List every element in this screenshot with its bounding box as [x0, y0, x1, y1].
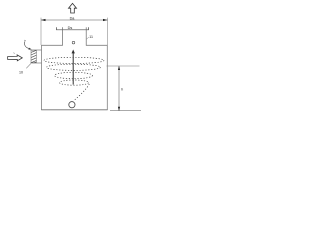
vessel left wall: [41, 45, 43, 110]
vortex ellipse 2 (dashed): [47, 64, 101, 70]
vessel right wall: [106, 45, 108, 110]
inlet tube bottom wall: [31, 62, 42, 64]
center up arrow shaft: [72, 53, 74, 85]
vortex ellipse 1 (dashed): [44, 57, 104, 63]
tick label above curved arrow: [24, 40, 25, 41]
dimension Da: extension line left: [40, 18, 42, 45]
neck right wall: [85, 27, 87, 45]
svg-text:h: h: [121, 87, 123, 91]
svg-text:11: 11: [89, 35, 93, 39]
dimension Ds: staple line: [57, 27, 89, 30]
dimension h: top reference line: [107, 65, 140, 67]
center up arrowhead: [72, 50, 75, 54]
svg-text:Ds: Ds: [68, 26, 73, 30]
vortex ellipse 4 (dashed): [60, 80, 89, 85]
faint tick above left arrow: [13, 52, 15, 55]
dimension Da: right arrowhead: [103, 19, 108, 21]
dimension Da: extension line right: [107, 18, 109, 45]
curved feed arrow: [25, 41, 30, 48]
dimension h: top arrowhead: [118, 66, 120, 70]
bottom bubble: [69, 102, 75, 108]
vortex tail (dashed): [74, 84, 89, 100]
vessel bottom edge: [41, 109, 107, 111]
inlet tube top wall: [31, 49, 42, 51]
neck left wall: [62, 27, 64, 45]
neck bubble: [72, 41, 75, 44]
label 10 leader: [26, 64, 31, 69]
label 11 leader: [86, 37, 89, 40]
dimension h: bottom arrowhead: [118, 107, 120, 111]
hollow up arrow (outlet flow): [69, 3, 77, 13]
vessel top edge right: [86, 44, 108, 46]
dimension h: bottom reference line: [110, 110, 141, 112]
dimension Da: line: [41, 19, 108, 21]
dimension Da: left arrowhead: [41, 19, 46, 21]
svg-text:10: 10: [19, 70, 23, 74]
vortex ellipse 3 (dashed): [55, 72, 93, 78]
hollow right arrow (inlet flow): [8, 55, 23, 61]
vessel top edge left: [41, 44, 62, 46]
inlet frit (hatched): [31, 50, 36, 63]
dimension h: vertical line: [118, 66, 120, 111]
background: [0, 0, 142, 120]
